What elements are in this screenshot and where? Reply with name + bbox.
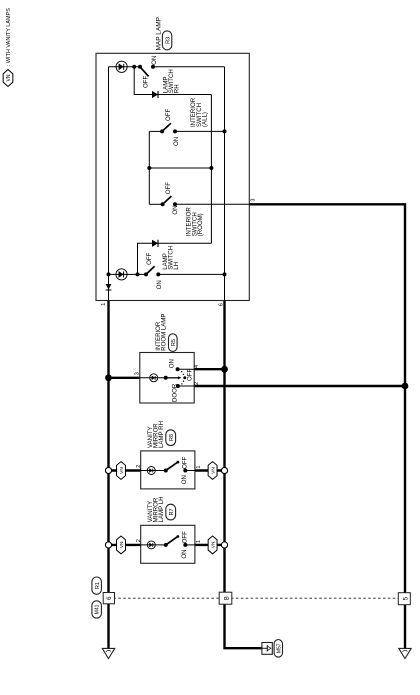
svg-text:2: 2 <box>136 539 142 542</box>
pin 4 (room lamp) <box>194 365 200 368</box>
connector badge R7 <box>166 504 176 520</box>
connector square 5 (right) <box>398 593 410 605</box>
vanity mirror lamp LH component box <box>141 525 195 563</box>
svg-text:ON: ON <box>156 280 163 289</box>
wire: dotted travel arc of room lamp switch <box>181 371 184 385</box>
connector square B (center) <box>219 592 232 604</box>
label INTERIOR SWITCH (ALL) <box>190 97 208 127</box>
map lamp R3 component box <box>96 53 249 300</box>
switch: lamp switch RH blade <box>138 65 155 77</box>
svg-text:VN: VN <box>211 467 217 474</box>
wire: vanity LH bulb row <box>141 544 195 546</box>
label INTERIOR ROOM LAMP <box>155 314 168 351</box>
label VANITY MIRROR LAMP RH <box>147 421 165 448</box>
switch: interior switch ROOM <box>149 196 249 206</box>
svg-text:RH: RH <box>173 84 180 93</box>
node: option splice circle (LH right) <box>221 542 227 548</box>
label MAP LAMP <box>156 17 163 50</box>
label OFF (lamp switch LH) <box>146 252 153 264</box>
svg-text:VN: VN <box>119 541 125 548</box>
svg-text:OFF: OFF <box>182 531 189 543</box>
svg-text:LAMP RH: LAMP RH <box>158 421 165 448</box>
pin 2 (room lamp) <box>194 382 200 385</box>
svg-text:OFF: OFF <box>186 369 193 381</box>
wire: left inner vertical x=108.5 <box>108 67 110 301</box>
pin 3 (map lamp) <box>250 199 256 202</box>
svg-text:OFF: OFF <box>146 252 153 264</box>
svg-text:ON: ON <box>151 56 158 65</box>
option badge VN (vanity RH left) <box>117 462 126 480</box>
ground (left, body ground) <box>102 648 114 658</box>
switch: vanity RH blade <box>164 461 188 473</box>
node: junction LH bulb / diode branch <box>136 272 140 276</box>
option badge VN (vanity LH left) <box>117 536 126 554</box>
svg-text:(ROOM): (ROOM) <box>197 213 204 236</box>
label OFF (interior switch ROOM) <box>165 182 172 194</box>
label ON (vanity LH) <box>181 549 188 558</box>
label OFF (vanity RH) <box>182 456 189 468</box>
pin 3 (room lamp) <box>134 372 140 375</box>
pin 1 (vanity LH) <box>196 540 202 543</box>
bulb: interior room lamp <box>150 374 158 382</box>
bulb: map lamp RH <box>116 61 127 72</box>
wire: cross link row y=168 <box>147 166 213 170</box>
label ON (vanity RH) <box>181 475 188 484</box>
svg-text:4: 4 <box>194 365 200 368</box>
svg-text:R5: R5 <box>171 339 177 346</box>
label INTERIOR SWITCH (ROOM) <box>186 207 204 237</box>
wire: center vertical (pin 6 to connector B and M57) <box>225 301 263 649</box>
svg-text:R3: R3 <box>165 37 171 44</box>
legend text: WITH VANITY LAMPS <box>6 8 12 66</box>
option badge VN (legend) <box>3 70 13 87</box>
label ON (lamp switch LH) <box>156 280 163 289</box>
svg-text:ON: ON <box>181 549 188 558</box>
svg-text:DOOR: DOOR <box>171 383 178 402</box>
pin 1 (vanity RH) <box>196 466 202 469</box>
wire: inner vertical x=211.4 <box>210 95 212 244</box>
svg-text:(ALL): (ALL) <box>202 112 209 127</box>
diode D3 (vertical, pin 1 output) <box>106 284 112 290</box>
wire: vanity RH right return <box>195 469 225 471</box>
svg-text:VN: VN <box>119 467 125 474</box>
wire: interior room lamp pin 2 wire to right vertical <box>194 385 405 387</box>
svg-text:3: 3 <box>250 199 256 202</box>
ground: M57 boxed chassis ground <box>262 643 272 655</box>
node: option splice circle (RH right) <box>221 467 227 473</box>
svg-text:1: 1 <box>196 466 202 469</box>
node: junction ALL switch to right vertical <box>223 129 227 133</box>
wire: vanity RH bulb row <box>141 470 195 472</box>
switch: lamp switch LH blade <box>144 266 160 276</box>
wire: vanity LH right return <box>195 544 225 546</box>
svg-text:OFF: OFF <box>142 76 149 88</box>
svg-text:R8: R8 <box>169 434 175 441</box>
connector badge R5 <box>169 334 178 352</box>
svg-text:OFF: OFF <box>165 109 172 121</box>
svg-text:VN: VN <box>211 541 217 548</box>
node: junction pin4 wire to center vertical <box>221 366 228 373</box>
svg-text:LAMP LH: LAMP LH <box>158 496 165 522</box>
ground (right, body ground) <box>399 648 411 658</box>
node: junction pin2 wire to right vertical <box>402 383 409 390</box>
label VANITY MIRROR LAMP LH <box>147 496 165 522</box>
wire: right inner vertical x=224.5 <box>224 67 226 301</box>
wire: vanity LH left feed <box>109 544 141 546</box>
node: option splice circle (LH left) <box>105 542 111 548</box>
connector square 6 (M41/R1 junction) <box>103 593 114 604</box>
svg-text:2: 2 <box>194 382 200 385</box>
svg-text:3: 3 <box>134 372 140 375</box>
svg-text:2: 2 <box>136 465 142 468</box>
switch: interior switch ALL <box>149 123 224 133</box>
svg-text:M41: M41 <box>95 604 101 614</box>
connector badge R8 <box>166 430 176 446</box>
wire: LH bulb row <box>109 273 225 275</box>
vanity mirror lamp RH component box <box>141 451 195 489</box>
connector badge R3 <box>162 31 171 50</box>
switch: room lamp 3-position blade <box>164 376 182 380</box>
label LAMP SWITCH LH <box>162 246 180 270</box>
pin 2 (vanity LH) <box>136 539 142 542</box>
wire: room lamp bulb row <box>140 377 166 379</box>
node: junction LH row to right vertical <box>223 272 227 276</box>
label OFF (room lamp) <box>186 369 193 381</box>
option badge VN (vanity LH right) <box>208 536 217 554</box>
bulb: map lamp LH <box>116 269 127 280</box>
interior room lamp R5 component box <box>140 353 194 404</box>
label ON (lamp switch RH) <box>151 56 158 65</box>
pin 6 (map lamp) <box>218 303 224 306</box>
svg-text:1: 1 <box>196 540 202 543</box>
node: junction left vertical / LH bulb row <box>107 272 111 276</box>
label ON (interior switch ROOM) <box>172 205 179 214</box>
wire: ground harness left vertical (pin 1 to ground) <box>107 301 109 649</box>
label LAMP SWITCH RH <box>163 69 181 93</box>
label OFF (lamp switch RH) <box>142 76 149 88</box>
svg-text:ROOM LAMP: ROOM LAMP <box>161 314 168 351</box>
wire: RH bulb row <box>109 66 225 68</box>
svg-text:B: B <box>224 596 230 600</box>
svg-text:ON: ON <box>173 137 180 146</box>
bulb: vanity mirror lamp LH <box>147 541 155 549</box>
wire: pin 3 feed, right horizontal then down right vertical to connector 5 <box>249 204 405 648</box>
wire: interior room lamp pin 4 wire <box>194 368 224 370</box>
label ON (room lamp) <box>168 359 175 368</box>
svg-text:: WITH VANITY LAMPS: : WITH VANITY LAMPS <box>6 8 12 66</box>
switch: vanity LH blade <box>164 535 188 547</box>
connector badge R1 <box>92 577 102 594</box>
svg-text:R7: R7 <box>169 508 175 515</box>
diode D1 (lamp switch RH) <box>152 91 158 98</box>
wire: dashed connector line between splice squares <box>109 597 406 599</box>
pin 1 (map lamp) <box>101 303 107 306</box>
label OFF (interior switch ALL) <box>165 109 172 121</box>
connector badge M41 <box>92 601 102 618</box>
wire: LH diode branch row <box>138 243 212 274</box>
svg-text:OFF: OFF <box>182 456 189 468</box>
node: junction bulb RH / diode branch <box>132 65 136 69</box>
pin 2 (vanity RH) <box>136 465 142 468</box>
label OFF (vanity LH) <box>182 531 189 543</box>
svg-text:OFF: OFF <box>165 182 172 194</box>
node: OFF contact (dead end) <box>183 376 186 379</box>
svg-text:ON: ON <box>172 205 179 214</box>
wire: interior room lamp pin 3 wire <box>109 377 140 379</box>
node: splice on left vertical at room lamp feed <box>105 374 112 381</box>
svg-text:LH: LH <box>173 262 180 270</box>
option badge VN (vanity RH right) <box>208 462 217 480</box>
svg-text:R1: R1 <box>95 582 101 589</box>
label ON (interior switch ALL) <box>173 137 180 146</box>
wire: RH diode branch row <box>134 67 211 95</box>
svg-text:ON: ON <box>181 475 188 484</box>
svg-text:M57: M57 <box>276 643 282 653</box>
label DOOR (room lamp) <box>171 383 178 402</box>
svg-text:1: 1 <box>101 303 107 306</box>
svg-text:VN: VN <box>6 74 12 81</box>
connector badge M57 <box>274 640 282 658</box>
node: DOOR contact + wire to pin 2 <box>176 384 194 388</box>
svg-text:ON: ON <box>168 359 175 368</box>
svg-text:MAP LAMP: MAP LAMP <box>156 17 163 50</box>
bulb: vanity mirror lamp RH <box>147 467 155 475</box>
diode D2 (lamp switch LH) <box>152 240 158 247</box>
wire: interior switch common vertical x=149.3 <box>148 131 150 204</box>
svg-text:6: 6 <box>218 303 224 306</box>
node: option splice circle (RH left) <box>105 467 111 473</box>
node: ON contact + wire to pin 4 <box>176 367 195 371</box>
wire: vanity RH left feed <box>109 469 141 471</box>
